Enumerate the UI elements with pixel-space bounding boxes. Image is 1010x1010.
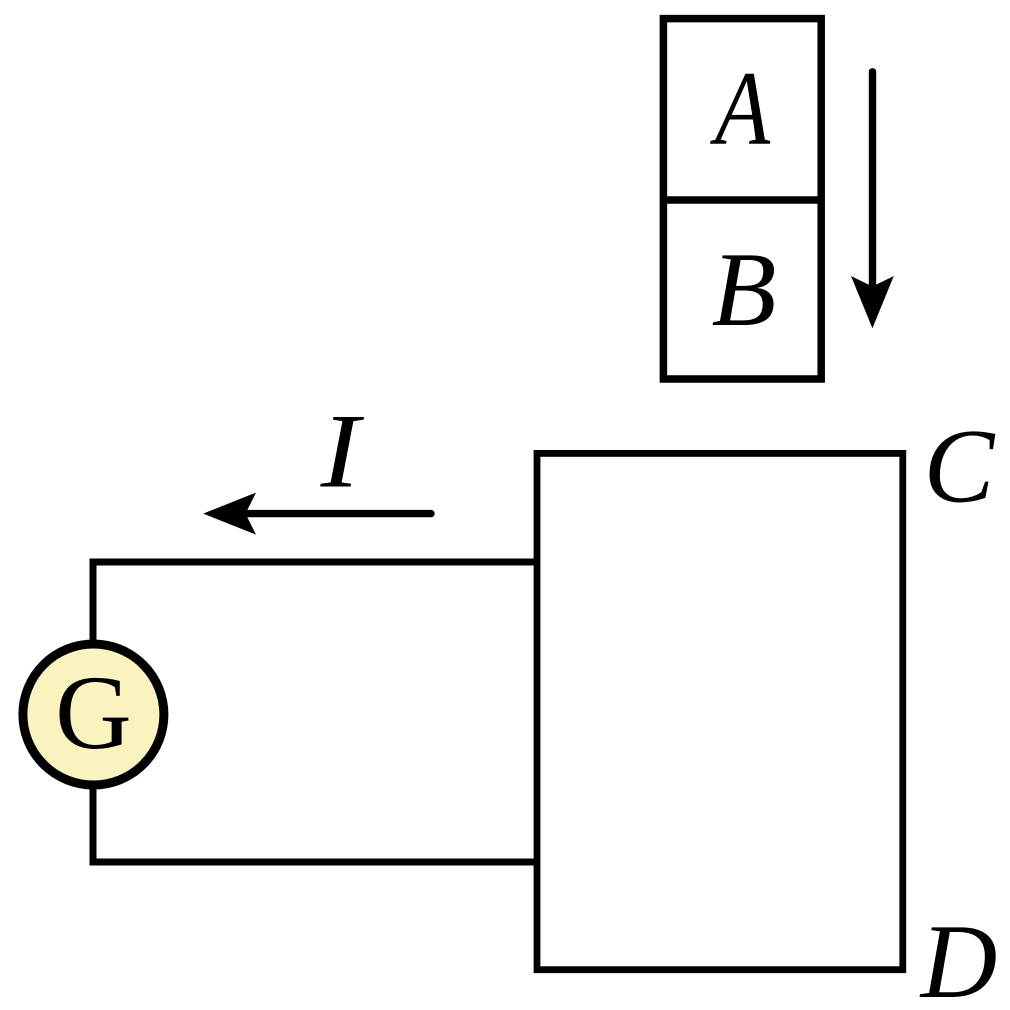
galvanometer G (circle) bbox=[23, 644, 164, 785]
svg-text:G: G bbox=[55, 654, 132, 771]
coil / loop rectangle bbox=[537, 453, 903, 969]
svg-text:C: C bbox=[924, 408, 996, 525]
svg-text:B: B bbox=[712, 231, 777, 348]
svg-text:D: D bbox=[919, 903, 998, 1010]
current arrow (leftward) bbox=[203, 493, 431, 535]
magnet body (bar magnet outline) bbox=[663, 19, 821, 379]
wire: bottom horizontal bbox=[93, 859, 537, 866]
magnet pole divider bbox=[663, 196, 821, 204]
wire: left vertical (behind galvanometer) bbox=[90, 559, 97, 866]
magnet motion arrow (downward) bbox=[851, 72, 894, 328]
svg-text:A: A bbox=[709, 50, 770, 167]
svg-text:I: I bbox=[320, 393, 365, 510]
wire: top horizontal bbox=[90, 559, 538, 566]
